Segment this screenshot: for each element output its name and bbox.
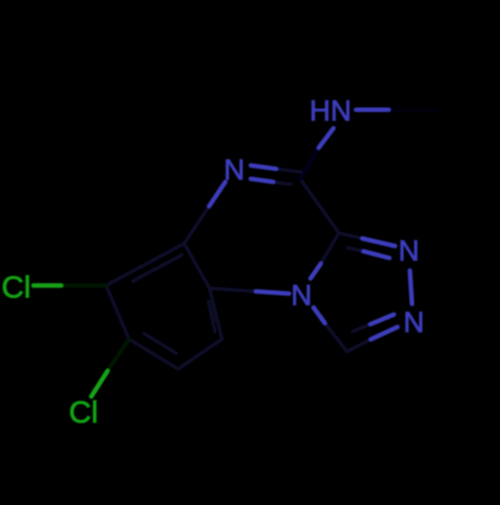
dark green chlorine bond halves bbox=[61, 286, 129, 372]
bond NH-C4 dark half bbox=[300, 148, 319, 179]
bond Cl1-C6 bright half bbox=[34, 283, 62, 288]
bright green chlorine bond halves bbox=[34, 286, 108, 397]
inner line C9=C9a bbox=[209, 302, 216, 332]
bond N5=C4 upper dark part bbox=[276, 169, 301, 172]
bond C1=N3 inner dark part bbox=[353, 324, 371, 331]
bond C3a=N2 inner bright bbox=[364, 251, 390, 258]
bond N5=C4 lower dark part bbox=[273, 182, 291, 184]
svg-text:N: N bbox=[403, 307, 424, 339]
svg-text:N: N bbox=[224, 154, 245, 186]
bond Cl1-C6 dark half bbox=[61, 284, 106, 288]
svg-text:Cl: Cl bbox=[69, 395, 98, 430]
bond N5-C5a dark half bbox=[184, 206, 209, 243]
bond C5a-C6 bbox=[106, 244, 184, 286]
bond C9-C9a bbox=[210, 288, 222, 339]
bond N5-C5a bright half bbox=[209, 182, 225, 206]
bond Cl2-C7 bright half bbox=[91, 371, 107, 397]
bond C6-C7 bbox=[106, 286, 129, 340]
bond NH-CH3 bright half bbox=[356, 107, 389, 112]
svg-text:Cl: Cl bbox=[2, 270, 31, 305]
bond C3a=N2 inner dark part bbox=[348, 248, 364, 252]
bond C1=N3 inner bright bbox=[370, 315, 394, 325]
bond NH-CH3 dark half bbox=[389, 108, 435, 112]
bond C4-C3a bbox=[300, 179, 339, 233]
atom labels bbox=[224, 96, 425, 339]
bond C9a-C5a bbox=[184, 244, 209, 289]
bond N5=C4 upper bright bbox=[251, 165, 276, 168]
svg-text:N: N bbox=[291, 280, 312, 312]
svg-text:N: N bbox=[398, 236, 419, 268]
inner line C5a=C6 bbox=[133, 255, 182, 281]
bond N2-N3 bbox=[410, 271, 412, 305]
bond C7-C8 bbox=[129, 339, 178, 369]
bond C9a-N10 dark half bbox=[210, 288, 256, 291]
svg-text:HN: HN bbox=[310, 96, 352, 128]
bond NH-C4 bright half bbox=[319, 128, 334, 147]
bond C1-N10 dark half bbox=[325, 323, 347, 352]
bond C8-C9 bbox=[178, 339, 222, 369]
bond C1=N3 main dark part bbox=[347, 339, 371, 351]
bond C1=N3 main bright bbox=[371, 327, 398, 339]
bond C9a-N10 bright half bbox=[256, 291, 289, 293]
bond C1-N10 bright half bbox=[314, 308, 325, 324]
bond Cl2-C7 dark half bbox=[108, 339, 130, 371]
bond C3a-N10 dark half bbox=[319, 233, 339, 266]
bright blue nitrogen bond halves bbox=[209, 110, 412, 340]
bond C3a=N2 main dark part bbox=[339, 233, 363, 239]
bond C3a-N10 bright half bbox=[311, 264, 321, 279]
bond N5=C4 lower bright bbox=[251, 179, 273, 182]
dark carbon bonds bbox=[106, 110, 434, 369]
inner line C7=C8 bbox=[144, 334, 176, 354]
bond C3a=N2 main bright bbox=[363, 239, 396, 247]
